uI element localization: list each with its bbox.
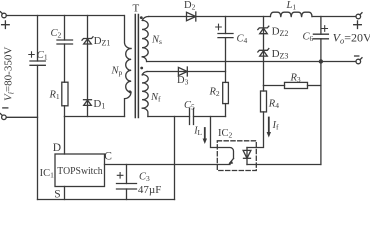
wire D pin [64, 117, 66, 155]
svg-text:If: If [272, 120, 279, 132]
node junction dot minus rail [319, 59, 323, 63]
annotation arrow If [267, 118, 271, 138]
zener Dz3 [258, 49, 269, 57]
zener Dz2 [258, 17, 269, 86]
label + (input) [2, 21, 10, 29]
svg-text:Vi=80-350V: Vi=80-350V [3, 47, 16, 101]
wire R1 to drain rail [64, 106, 66, 117]
diode D1 [84, 100, 92, 106]
capacitor C4 [218, 17, 233, 62]
svg-text:R3: R3 [290, 73, 301, 85]
inductor L1 turn joints [280, 15, 303, 17]
wire input minus to C1 column [6, 116, 37, 118]
annotation arrow IL [203, 128, 207, 144]
svg-text:C: C [104, 150, 112, 162]
transformer T primary winding Np [125, 16, 132, 117]
wire R2 top to minus rail [225, 72, 227, 83]
svg-text:R1: R1 [49, 90, 60, 102]
svg-text:S: S [54, 188, 60, 200]
resistor R2 [223, 82, 229, 103]
svg-text:Nf: Nf [150, 92, 161, 104]
output terminal + [356, 13, 362, 19]
svg-text:TOPSwitch: TOPSwitch [57, 166, 102, 177]
svg-text:IL: IL [193, 125, 202, 137]
wire primary ground line [174, 117, 176, 200]
label + (C3) [117, 173, 123, 179]
label - (input) [3, 107, 8, 109]
label + (output) [354, 21, 362, 29]
inductor L1 [270, 12, 312, 16]
capacitor C1 [30, 16, 45, 200]
svg-text:D1: D1 [93, 98, 105, 111]
svg-text:D: D [53, 142, 61, 154]
transformer secondary winding Ns [142, 16, 148, 61]
capacitor C6 [313, 17, 328, 62]
wire Nf top to D3 [147, 62, 226, 72]
input terminal - [0, 114, 6, 120]
svg-text:IC1: IC1 [40, 168, 55, 180]
wire S pin [64, 187, 66, 200]
svg-text:DZ2: DZ2 [272, 25, 289, 38]
svg-text:IC2: IC2 [218, 128, 233, 140]
capacitor C5 [148, 109, 226, 125]
svg-text:C1: C1 [37, 50, 48, 62]
svg-text:47µF: 47µF [138, 184, 161, 196]
resistor R3 [264, 82, 321, 88]
svg-text:T: T [133, 3, 140, 15]
dot Np polarity [129, 90, 132, 93]
capacitor C3 [117, 165, 137, 200]
label + (C6) [322, 26, 328, 32]
wire LED cathode to feedback column [247, 164, 321, 166]
label - (output) [355, 55, 359, 57]
IC2 optocoupler dashed box [217, 141, 256, 171]
label + (C1) [29, 52, 34, 57]
optocoupler LED [243, 148, 251, 165]
svg-text:DZ1: DZ1 [94, 35, 111, 48]
input terminal + [0, 12, 6, 18]
svg-text:R4: R4 [268, 99, 279, 111]
IC1 TOPSwitch box [55, 154, 105, 187]
svg-text:D2: D2 [184, 0, 196, 12]
diode D3 [178, 67, 187, 76]
zener Dz1 [82, 16, 93, 117]
optocoupler phototransistor [211, 117, 234, 165]
svg-text:R2: R2 [209, 87, 220, 99]
diode D2 [187, 12, 196, 21]
svg-text:C4: C4 [237, 34, 248, 46]
svg-text:C3: C3 [139, 172, 150, 184]
svg-text:L1: L1 [286, 0, 297, 12]
wire bottom rail [38, 199, 175, 201]
winding turn joints [130, 29, 143, 101]
wire R4 to LED jog [247, 112, 264, 148]
capacitor C2 [57, 16, 73, 83]
transformer feedback winding Nf [142, 72, 148, 117]
resistor R4 [261, 86, 267, 112]
wire top rail primary [6, 15, 124, 17]
svg-text:Np: Np [111, 66, 123, 78]
output terminal - [356, 58, 362, 64]
svg-text:D3: D3 [177, 75, 189, 87]
label + (C4) [216, 24, 222, 30]
svg-text:Vo=20V: Vo=20V [333, 30, 370, 45]
transformer core [135, 15, 138, 118]
wire Ns top to D2 [149, 16, 356, 18]
wire output minus rail [147, 61, 356, 63]
dot Ns polarity [140, 16, 143, 19]
svg-text:Ns: Ns [151, 35, 162, 47]
svg-text:C6: C6 [303, 32, 314, 44]
wire drain rail [65, 116, 125, 118]
wire minus rail to feedback column [320, 62, 322, 165]
svg-text:C5: C5 [184, 100, 195, 112]
wire C pin [105, 164, 231, 166]
dot Nf polarity [140, 67, 143, 70]
wire R2 bottom to bias node [225, 104, 227, 117]
svg-text:DZ3: DZ3 [272, 48, 289, 61]
svg-text:C2: C2 [51, 28, 62, 40]
resistor R1 [62, 82, 68, 106]
